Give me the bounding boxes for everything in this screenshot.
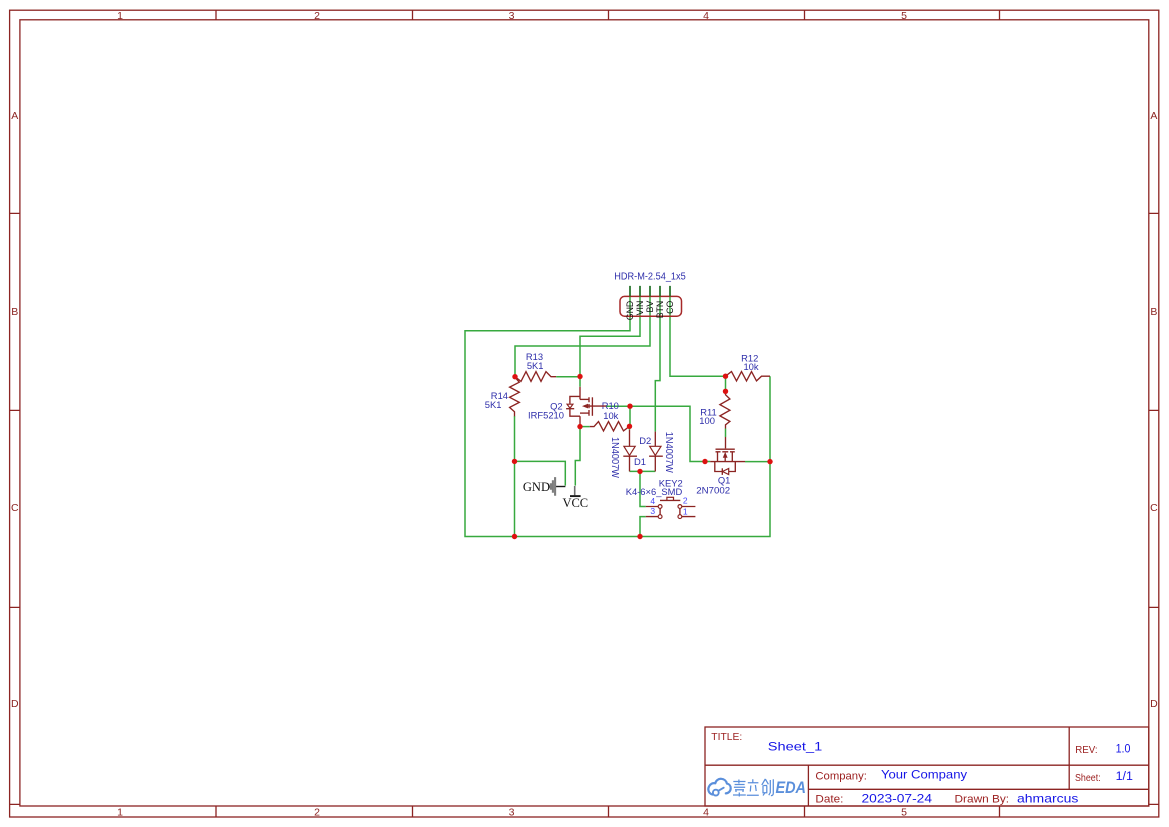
svg-text:1.0: 1.0 [1116,742,1131,756]
wire D1-D2 cathodes [630,470,656,472]
svg-text:GND: GND [523,480,550,494]
frame column ticks bottom [216,806,1000,817]
frame column ticks top [216,10,1000,20]
wire CO net [670,297,726,376]
svg-text:5K1: 5K1 [485,399,502,410]
svg-text:Company:: Company: [815,770,867,782]
junction D1/D2 cathodes [637,469,642,474]
svg-text:4: 4 [703,10,709,22]
wire switch pin 3 to ground rail [640,517,646,537]
svg-text:4: 4 [703,806,709,818]
junction R14/GND flag [512,459,517,464]
svg-text:2: 2 [314,10,320,22]
svg-text:HDR-M-2.54_1x5: HDR-M-2.54_1x5 [614,271,686,282]
logo character chuang [762,779,774,796]
junction VIN/R13/Q2 source [577,374,582,379]
svg-text:10k: 10k [603,410,618,421]
svg-text:B: B [1150,306,1157,318]
svg-text:1N4007W: 1N4007W [663,432,674,474]
title block logo cell divider [807,765,809,806]
svg-text:A: A [11,110,18,122]
svg-text:D: D [1150,698,1158,710]
resistor R14 [510,377,520,417]
svg-text:2: 2 [314,806,320,818]
wire R10 right to D1 [629,426,631,430]
svg-text:2023-07-24: 2023-07-24 [862,791,933,805]
svg-text:5: 5 [901,10,907,22]
svg-text:Drawn By:: Drawn By: [955,794,1010,806]
wire gate node down to R10 [629,406,631,426]
svg-text:TITLE:: TITLE: [711,732,742,743]
frame row ticks left [10,213,20,804]
svg-text:BTN: BTN [655,301,665,319]
svg-text:B: B [11,306,18,318]
svg-text:D2: D2 [639,435,651,446]
junction Q1 gate-side wire [702,459,707,464]
wire Q1 source to right rail [745,461,770,463]
logo cloud icon [708,779,730,796]
junction R10/D1/gate wire [627,424,632,429]
svg-text:D: D [11,698,19,710]
frame row ticks right [1149,213,1159,804]
svg-text:C: C [1150,502,1158,514]
svg-text:C: C [11,502,19,514]
diode D2 1N4007W [649,432,663,472]
svg-text:4: 4 [650,496,655,506]
junction switch/bottom rail [637,534,642,539]
svg-text:2: 2 [683,496,688,506]
svg-text:EDA: EDA [776,778,807,797]
svg-text:Sheet_1: Sheet_1 [768,739,823,753]
svg-text:1: 1 [683,507,688,517]
wire R10 left stub [580,426,590,428]
svg-text:Sheet:: Sheet: [1075,773,1101,784]
svg-text:5: 5 [901,806,907,818]
svg-text:1/1: 1/1 [1116,771,1133,783]
svg-text:VCC: VCC [562,496,588,510]
title block row line 1 [705,764,1149,766]
resistor R12 [726,372,771,381]
svg-text:Your Company: Your Company [881,768,967,782]
resistor R10 [590,422,630,431]
wire VIN net [580,297,640,387]
svg-text:2N7002: 2N7002 [696,484,730,495]
svg-text:100: 100 [699,415,715,426]
wire to GND flag [515,461,566,485]
wire BV net [515,297,650,377]
resistor R13 [515,372,556,382]
title block row line 2 [808,788,1148,790]
svg-text:10k: 10k [743,361,758,372]
junction CO/R12/R11 [723,374,728,379]
svg-text:VIN: VIN [635,301,645,316]
junction Q2 drain/R10/VCC [577,424,582,429]
svg-text:REV:: REV: [1075,745,1097,756]
svg-text:5K1: 5K1 [527,360,544,371]
wire R14 bottom to rail [514,416,516,537]
title block rev cell divider [1068,727,1070,789]
ground flag symbol [549,477,565,496]
junction BV/R13/R14 [512,374,517,379]
transistor Q2 IRF5210 (PMOS) [566,387,606,427]
svg-text:A: A [1150,110,1157,122]
wire GND net (left and bottom rails) [465,297,770,537]
connector pin stubs [630,286,670,297]
wire Q2 drain to VCC flag [575,427,580,486]
diode D1 1N4007W [623,430,637,472]
junction R14/bottom rail [512,534,517,539]
wire R12 to R11 [725,376,727,391]
vcc flag symbol [570,486,581,496]
wire R13 right lead to VIN node [556,376,580,378]
svg-text:D1: D1 [634,456,646,467]
svg-text:1N4007W: 1N4007W [609,437,620,479]
svg-text:IRF5210: IRF5210 [528,410,564,421]
wire Q2 gate to Q1 gate-side [606,406,710,461]
svg-text:BV: BV [645,301,655,313]
svg-text:1: 1 [117,806,123,818]
svg-text:ahmarcus: ahmarcus [1017,791,1078,805]
junction Q1/R12/rail [767,459,772,464]
wire BTN net [655,297,660,432]
connector P1 HDR-M-2.54_1x5 body [620,296,682,316]
logo character jia [733,780,746,797]
resistor R11 lead to Q1 gate [725,437,727,448]
svg-text:GND: GND [625,301,635,321]
title block outline [705,727,1149,806]
svg-text:1: 1 [117,10,123,22]
svg-text:3: 3 [509,806,515,818]
transistor Q1 2N7002 (NMOS) [710,448,745,475]
junction gate node [627,404,632,409]
resistor R11 [720,391,730,428]
logo character li [747,779,759,795]
wire D junction to switch pin 4 [640,471,646,506]
switch KEY2 K4-6x6_SMD [646,497,696,518]
junction R11 top [723,389,728,394]
svg-text:CO: CO [665,301,675,314]
svg-text:3: 3 [650,506,655,516]
svg-text:3: 3 [509,10,515,22]
wire R11 to Q1 gate break [725,429,727,438]
svg-text:Date:: Date: [815,794,843,806]
